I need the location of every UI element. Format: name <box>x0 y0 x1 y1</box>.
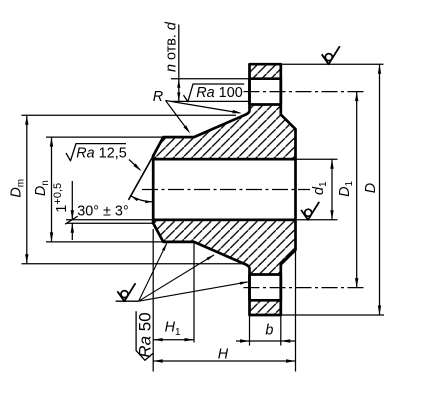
svg-text:30° ± 3°: 30° ± 3° <box>77 204 128 220</box>
svg-text:H: H <box>218 346 229 362</box>
svg-text:D: D <box>363 183 379 193</box>
svg-text:R: R <box>153 89 163 105</box>
svg-text:b: b <box>265 323 273 339</box>
svg-text:n отв. d: n отв. d <box>164 21 180 72</box>
svg-text:Ra 50: Ra 50 <box>136 312 155 357</box>
svg-text:Ra 100: Ra 100 <box>196 85 242 101</box>
svg-text:Ra 12,5: Ra 12,5 <box>76 146 126 162</box>
